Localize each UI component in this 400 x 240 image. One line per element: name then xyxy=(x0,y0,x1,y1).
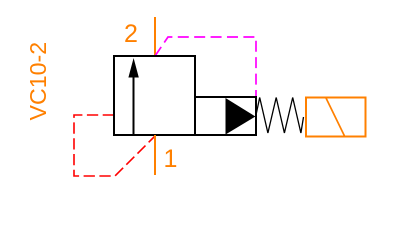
solenoid coil box xyxy=(306,98,366,137)
svg-text:2: 2 xyxy=(124,20,138,48)
flow arrow shaft xyxy=(133,75,135,134)
pilot line magenta dashed xyxy=(155,37,256,97)
spring xyxy=(256,98,304,134)
svg-text:VC10-2: VC10-2 xyxy=(25,42,51,121)
valve body xyxy=(114,56,195,135)
port line 2 xyxy=(154,17,156,56)
solenoid triangle xyxy=(226,98,256,135)
port line 1 xyxy=(154,135,156,175)
drain line red dashed xyxy=(74,115,155,176)
flow arrow head xyxy=(128,58,138,78)
solenoid actuator box xyxy=(195,97,256,135)
solenoid coil diagonal xyxy=(326,98,345,136)
svg-text:1: 1 xyxy=(164,145,178,173)
